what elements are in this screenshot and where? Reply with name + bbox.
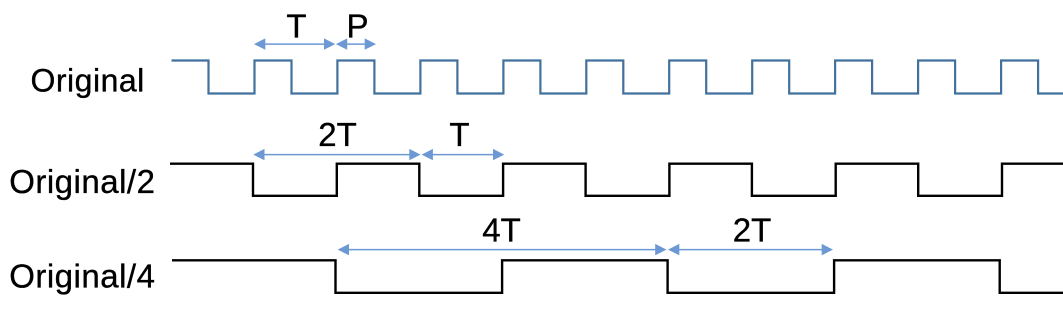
- svg-text:Original/2: Original/2: [9, 163, 155, 200]
- svg-text:2T: 2T: [733, 212, 772, 249]
- svg-text:Original: Original: [31, 63, 145, 99]
- svg-text:T: T: [449, 116, 469, 153]
- svg-text:4T: 4T: [482, 212, 521, 249]
- svg-text:P: P: [346, 7, 368, 44]
- svg-text:Original/4: Original/4: [9, 258, 155, 295]
- svg-text:T: T: [286, 7, 306, 44]
- svg-text:2T: 2T: [318, 116, 357, 153]
